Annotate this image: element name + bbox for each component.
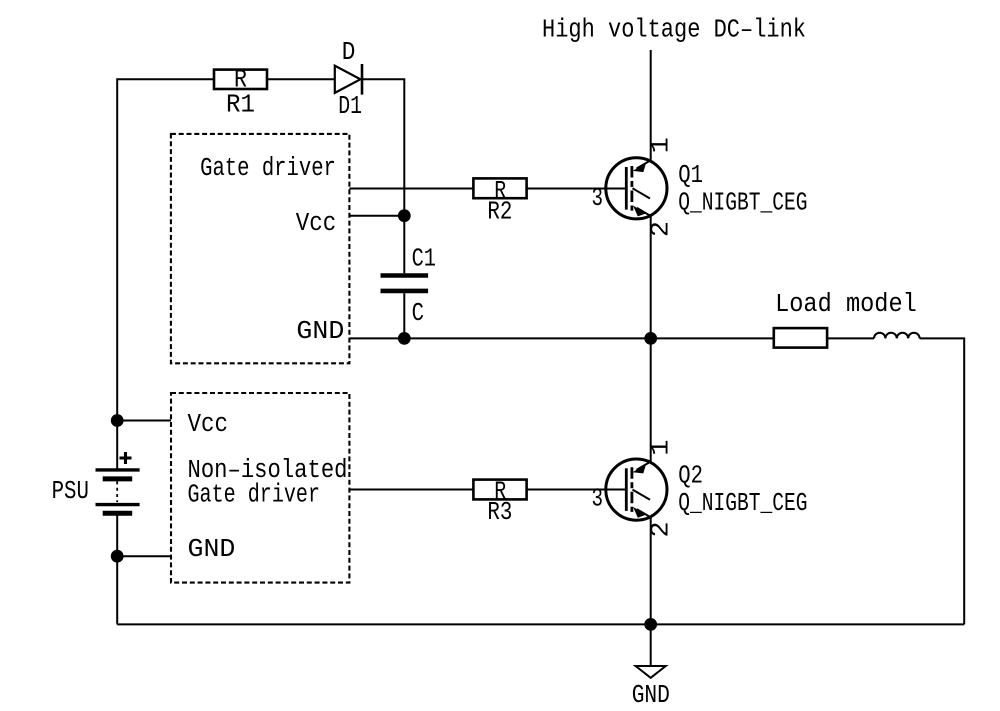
wire capacitor to GND rail (403, 293, 405, 338)
svg-text:Vcc: Vcc (188, 410, 229, 439)
svg-text:R1: R1 (226, 91, 255, 120)
wire bottom rail (117, 623, 964, 625)
wire node to capacitor (403, 216, 405, 274)
svg-text:High voltage DC–link: High voltage DC–link (542, 16, 806, 45)
svg-text:Q_NIGBT_CEG: Q_NIGBT_CEG (678, 489, 807, 518)
node Vcc junction (398, 209, 411, 222)
svg-text:Gate driver: Gate driver (200, 154, 336, 183)
transistor Q1 (606, 158, 667, 219)
gate driver box 2 (171, 393, 349, 583)
node GND left junction (111, 550, 124, 563)
node mid rail junction (644, 332, 657, 345)
wire Q2 emitter down (650, 518, 652, 625)
wire gate driver 2 output to R3 (349, 489, 473, 491)
svg-text:Q2: Q2 (678, 462, 703, 491)
diode D1 (335, 38, 362, 121)
wire mid rail (349, 337, 772, 339)
battery PSU (52, 452, 140, 513)
wire load resistor to inductor (827, 337, 874, 339)
svg-text:1: 1 (647, 137, 676, 153)
svg-text:R3: R3 (487, 498, 512, 527)
node bottom GND junction (644, 618, 657, 631)
wire D1 to corner and down to Vcc node (362, 79, 404, 215)
svg-text:Q_NIGBT_CEG: Q_NIGBT_CEG (678, 189, 807, 218)
wire gate driver 1 output to R2 (349, 188, 473, 190)
capacitor C1 (381, 244, 437, 328)
node capacitor GND junction (398, 332, 411, 345)
svg-text:Gate driver: Gate driver (188, 481, 321, 510)
wire Q1 collector from top node to Q2 (650, 338, 652, 461)
gate driver box 1 (171, 134, 350, 363)
svg-text:PSU: PSU (52, 477, 89, 506)
svg-text:Vcc: Vcc (296, 209, 337, 238)
wire R3 to Q2 gate (527, 489, 627, 491)
wire inductor to right rail (920, 338, 965, 624)
svg-text:3: 3 (592, 484, 604, 513)
svg-text:R2: R2 (487, 198, 512, 227)
wire top rail (117, 79, 214, 470)
wire Q1 emitter down (650, 216, 652, 338)
svg-text:D: D (342, 38, 356, 67)
wire node to GND symbol (650, 624, 652, 666)
wire left rail lower (116, 513, 118, 624)
resistor R2 (473, 177, 526, 227)
wire top DC-link vertical (650, 50, 652, 160)
svg-text:3: 3 (592, 184, 604, 213)
svg-text:GND: GND (296, 317, 344, 346)
wire Vcc pin to node (349, 215, 404, 217)
svg-text:D1: D1 (338, 92, 362, 121)
svg-text:GND: GND (632, 681, 670, 710)
resistor load model (774, 328, 827, 348)
resistor R1 (214, 65, 267, 119)
node Vcc left junction (111, 414, 124, 427)
svg-text:C: C (412, 299, 424, 328)
svg-text:GND: GND (188, 535, 236, 564)
resistor R3 (473, 477, 526, 527)
svg-text:Q1: Q1 (678, 161, 703, 190)
svg-text:Load model: Load model (775, 290, 917, 319)
transistor Q2 (606, 459, 667, 520)
wire node to box2 Vcc (117, 420, 171, 422)
inductor load model (874, 333, 920, 339)
svg-text:C1: C1 (412, 244, 436, 273)
wire R1 to D1 (267, 78, 335, 80)
wire R2 to Q1 gate (527, 188, 627, 190)
ground (632, 666, 670, 710)
wire node to box2 GND (117, 555, 171, 557)
